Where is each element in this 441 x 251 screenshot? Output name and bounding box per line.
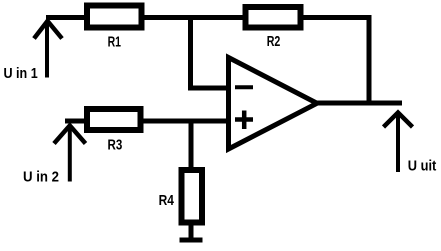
op-amp U1	[229, 58, 318, 150]
wire feedback vertical from R2 row down to output	[367, 15, 372, 103]
svg-text:R1: R1	[108, 35, 121, 51]
svg-text:R2: R2	[267, 34, 281, 50]
wire inverting input horizontal	[188, 86, 230, 91]
svg-text:R4: R4	[159, 193, 174, 209]
wire non-inverting row from U in 2 through R3 to op-amp	[65, 119, 230, 124]
svg-text:R3: R3	[108, 137, 123, 153]
arrow U uit	[396, 113, 400, 172]
wire from R4 bottom to ground	[189, 225, 194, 240]
wire top row from U in 1 through R1 junction R2 to feedback corner	[46, 15, 372, 20]
resistor R3	[87, 109, 141, 130]
wire junction vertical down to inverting input	[188, 18, 193, 89]
svg-text:U in 1: U in 1	[4, 66, 38, 82]
arrow U in 2	[68, 126, 72, 182]
wire from non-inverting row down to R4	[189, 121, 194, 168]
svg-text:U in 2: U in 2	[23, 170, 59, 186]
op-amp plus sign	[235, 111, 253, 130]
svg-text:U uit: U uit	[408, 159, 437, 175]
resistor R2	[246, 7, 301, 28]
wire output from op-amp to the right	[317, 101, 402, 106]
resistor R1	[87, 6, 142, 28]
ground	[180, 238, 203, 243]
resistor R4	[182, 170, 203, 223]
op-amp minus sign	[235, 85, 253, 89]
arrow U in 1	[45, 21, 49, 78]
